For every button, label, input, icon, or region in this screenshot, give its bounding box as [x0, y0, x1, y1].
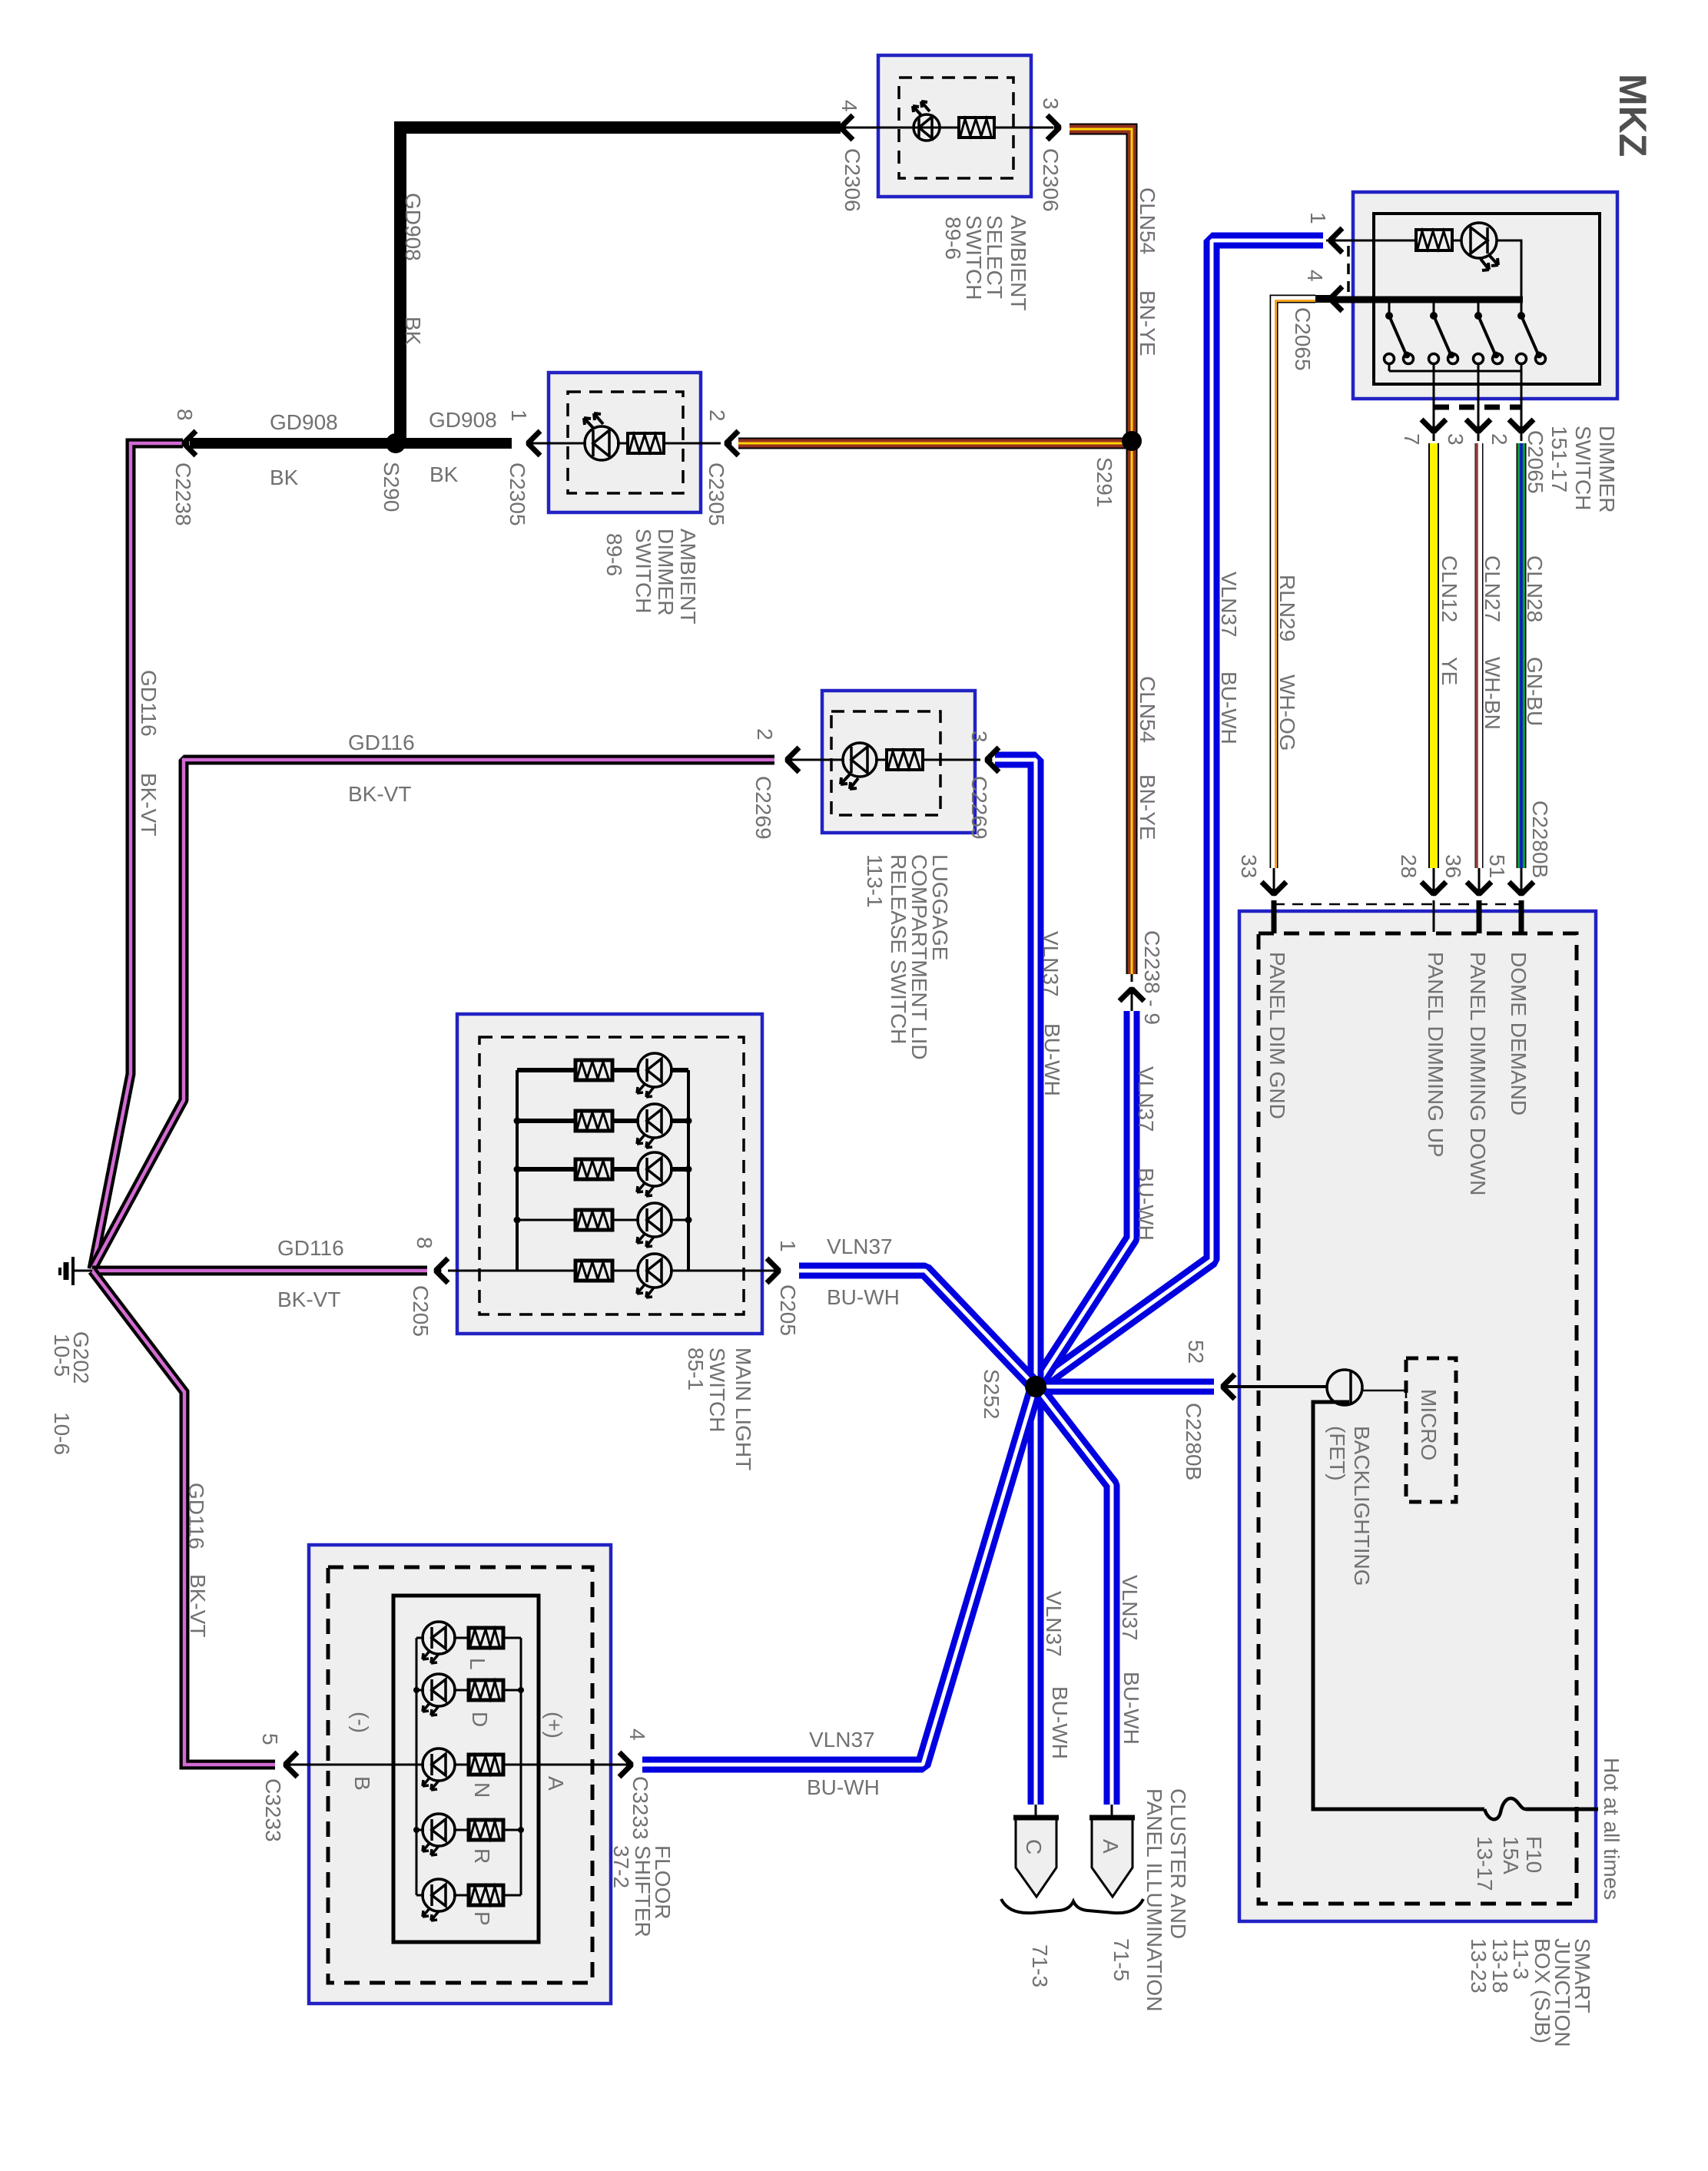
svg-text:DOME DEMAND: DOME DEMAND — [1507, 952, 1531, 1115]
main light row 4: resistor + LED — [517, 1203, 688, 1247]
svg-text:Hot at all times: Hot at all times — [1600, 1758, 1623, 1900]
svg-text:SHIFTER: SHIFTER — [631, 1845, 655, 1937]
main wire through floor shifter — [290, 1764, 424, 1766]
wire through select switch — [844, 127, 959, 129]
svg-text:GD908: GD908 — [270, 410, 338, 434]
svg-text:4: 4 — [625, 1729, 649, 1741]
arrow C2065 pin 7 — [1421, 419, 1446, 433]
svg-text:13-23: 13-23 — [1467, 1938, 1491, 1994]
svg-text:BU-WH: BU-WH — [807, 1775, 880, 1799]
wire GD908 BK horizontal through S290 — [190, 438, 512, 449]
ambient select switch internals — [844, 101, 1053, 141]
wire GD908 BK from ambient select switch pin4 to S290 — [400, 128, 841, 439]
svg-text:C2280B: C2280B — [1182, 1403, 1206, 1480]
svg-text:C2238: C2238 — [171, 462, 195, 526]
svg-text:13-17: 13-17 — [1473, 1836, 1497, 1891]
svg-text:BK: BK — [429, 462, 459, 486]
svg-text:PANEL DIMMING UP: PANEL DIMMING UP — [1424, 952, 1448, 1158]
svg-text:C2269: C2269 — [967, 776, 991, 840]
svg-text:C2065: C2065 — [1291, 307, 1315, 371]
svg-text:C205: C205 — [776, 1284, 800, 1336]
svg-text:89-6: 89-6 — [602, 533, 626, 576]
connector A pentagon — [1092, 1818, 1133, 1897]
main light row 1: resistor + LED — [517, 1053, 688, 1097]
wire stub to connector A — [1111, 1805, 1113, 1818]
svg-text:33: 33 — [1237, 854, 1261, 878]
arrow SJB pin 36 — [1467, 882, 1491, 895]
svg-text:C2306: C2306 — [841, 148, 864, 212]
LED D1 ambient dimmer — [585, 426, 619, 460]
svg-text:L: L — [466, 1658, 489, 1670]
svg-text:2: 2 — [705, 409, 729, 422]
svg-text:BK-VT: BK-VT — [186, 1574, 210, 1637]
svg-text:BACKLIGHTING: BACKLIGHTING — [1350, 1426, 1374, 1586]
svg-text:PANEL ILLUMINATION: PANEL ILLUMINATION — [1143, 1788, 1166, 2011]
svg-text:AMBIENT: AMBIENT — [1007, 215, 1030, 310]
ambient select switch box — [878, 55, 1031, 197]
svg-text:BN-YE: BN-YE — [1136, 290, 1159, 356]
svg-text:CLUSTER AND: CLUSTER AND — [1166, 1788, 1190, 1939]
dashed connector line C2280B top — [1274, 903, 1521, 906]
wire stub to connector C — [1035, 1805, 1037, 1818]
svg-text:C2065: C2065 — [1524, 430, 1547, 494]
svg-text:PANEL DIMMING DOWN: PANEL DIMMING DOWN — [1466, 952, 1490, 1195]
arrow C2305 pin 1 — [527, 431, 540, 456]
svg-text:4: 4 — [1303, 270, 1327, 282]
floor shifter box — [309, 1545, 611, 2004]
svg-text:WH-OG: WH-OG — [1275, 675, 1299, 751]
svg-text:1: 1 — [507, 409, 531, 422]
svg-text:N: N — [470, 1782, 494, 1798]
arrow C2306 pin 4 — [840, 115, 853, 140]
LED D1 select switch — [914, 114, 940, 141]
arrow SJB pin 51 — [1509, 882, 1534, 895]
svg-text:B: B — [350, 1776, 374, 1791]
svg-text:4: 4 — [837, 100, 861, 112]
svg-text:71-5: 71-5 — [1109, 1938, 1133, 1981]
svg-text:BU-WH: BU-WH — [1134, 1168, 1158, 1241]
resistor R1 luggage switch — [887, 750, 923, 770]
resistor R1 dimmer — [1416, 230, 1452, 250]
wire from FET down to fuse F10 — [1313, 1402, 1484, 1809]
switch arm 1 — [1388, 303, 1391, 313]
arrow C2269 pin 3 — [986, 747, 999, 772]
svg-text:SWITCH: SWITCH — [705, 1347, 729, 1432]
svg-text:8: 8 — [413, 1237, 436, 1249]
main light row 2: resistor + LED — [517, 1104, 688, 1148]
svg-text:GD116: GD116 — [277, 1236, 344, 1260]
switch arm 3 — [1478, 303, 1480, 313]
svg-text:VLN37: VLN37 — [1217, 572, 1241, 638]
svg-text:F10: F10 — [1522, 1836, 1546, 1873]
bus bar pin4 — [1334, 297, 1523, 303]
svg-text:DIMMER: DIMMER — [654, 529, 678, 616]
svg-text:VLN37: VLN37 — [1118, 1575, 1142, 1641]
right bus floor shifter — [520, 1638, 522, 1895]
luggage compartment lid release switch internals — [791, 743, 980, 789]
wire resistor to LED — [1452, 240, 1462, 242]
smart junction box (SJB) — [1239, 911, 1596, 1921]
svg-text:37-2: 37-2 — [609, 1845, 633, 1888]
svg-text:1: 1 — [776, 1240, 800, 1252]
wire VLN37 BU-WH from S252 down to connector C — [1028, 1387, 1044, 1805]
svg-text:AMBIENT: AMBIENT — [676, 529, 700, 624]
svg-text:C2305: C2305 — [705, 462, 728, 526]
svg-text:A: A — [544, 1776, 568, 1791]
svg-text:15A: 15A — [1499, 1836, 1523, 1874]
svg-text:(-): (-) — [349, 1712, 373, 1733]
svg-text:113-1: 113-1 — [863, 854, 887, 908]
floor shifter LED L row — [416, 1622, 521, 1663]
switch arm 2 — [1433, 303, 1435, 313]
wire GD116 BK-VT from ground to floor shifter C3233-5 — [92, 1271, 275, 1765]
svg-text:(+): (+) — [542, 1712, 566, 1738]
arrow C2306 pin 3 — [1047, 115, 1060, 140]
svg-text:VLN37: VLN37 — [1039, 931, 1063, 997]
svg-text:GN-BU: GN-BU — [1523, 657, 1547, 726]
svg-text:CLN12: CLN12 — [1438, 555, 1461, 622]
svg-text:RELEASE SWITCH: RELEASE SWITCH — [887, 854, 910, 1044]
arrow SJB pin 33 — [1262, 882, 1286, 895]
right bus main light — [687, 1070, 690, 1271]
svg-text:C3233: C3233 — [261, 1778, 285, 1842]
arrow C205 pin 1 — [767, 1258, 780, 1283]
svg-text:GD116: GD116 — [184, 1483, 208, 1550]
svg-text:BK-VT: BK-VT — [137, 773, 161, 836]
floor shifter LED P row — [416, 1879, 521, 1921]
wire VLN37 BU-WH from main light switch C205-1 to S252 — [799, 1271, 1036, 1387]
main light switch box — [457, 1014, 762, 1334]
svg-text:C2269: C2269 — [751, 776, 775, 840]
svg-text:A: A — [1099, 1839, 1123, 1854]
dashed connector line C2065 left — [1347, 246, 1350, 295]
svg-text:8: 8 — [173, 409, 197, 421]
wire VLN37 BU-WH from C2238-9 to S252 — [1036, 1011, 1132, 1387]
backlighting FET circle — [1327, 1370, 1362, 1405]
svg-text:BK: BK — [270, 466, 299, 489]
svg-text:52: 52 — [1184, 1340, 1208, 1364]
arrow dimmer switch pin 4 — [1329, 287, 1342, 311]
svg-text:YE: YE — [1438, 657, 1461, 685]
svg-text:C3233: C3233 — [628, 1776, 652, 1840]
wire black stub dimmer pin4 — [1315, 295, 1335, 303]
svg-text:GD908: GD908 — [401, 193, 425, 261]
svg-text:CLN54: CLN54 — [1136, 676, 1159, 743]
svg-text:C2305: C2305 — [506, 462, 529, 526]
svg-text:C205: C205 — [409, 1285, 433, 1337]
wire GD116 BK-VT from C2238-8 to ground — [92, 443, 183, 1269]
main light row 5: resistor + LED — [448, 1254, 774, 1298]
svg-text:WH-BN: WH-BN — [1481, 657, 1504, 730]
arrow SJB pin 28 — [1421, 882, 1446, 895]
splice S290 — [386, 433, 406, 453]
arrow C205 pin 8 — [435, 1258, 448, 1283]
main light switch internals — [514, 1070, 692, 1271]
arrow SJB pin 52 — [1222, 1374, 1235, 1399]
left bus main light — [516, 1070, 519, 1271]
svg-text:BU-WH: BU-WH — [1217, 671, 1241, 744]
splice S252 — [1025, 1376, 1046, 1397]
svg-text:13-18: 13-18 — [1488, 1938, 1512, 1994]
svg-text:(FET): (FET) — [1325, 1426, 1349, 1481]
connector C pentagon — [1016, 1818, 1056, 1897]
svg-text:MICRO: MICRO — [1417, 1389, 1441, 1460]
wire VLN37 BU-WH from dimmer switch pin1 to S252 — [1036, 240, 1323, 1387]
wire VLN37 BU-WH from luggage C2269-3 to S252 — [995, 760, 1036, 1387]
svg-text:DIMMER: DIMMER — [1595, 426, 1619, 513]
brace under connectors — [1001, 1899, 1143, 1913]
LED D1 dimmer — [1461, 223, 1497, 258]
svg-text:R: R — [470, 1848, 494, 1864]
svg-text:GD908: GD908 — [429, 408, 497, 432]
ground G202 — [60, 1257, 92, 1285]
svg-text:VLN37: VLN37 — [1134, 1066, 1158, 1132]
wire VLN37 BU-WH from S252 down to connector A — [1036, 1387, 1112, 1805]
arrow C2238 pin 9 — [1119, 988, 1144, 1001]
arrow C2305 pin 2 — [725, 431, 738, 456]
svg-text:CLN27: CLN27 — [1481, 555, 1504, 622]
splice S291 — [1122, 431, 1142, 451]
svg-text:2: 2 — [753, 728, 777, 741]
svg-text:P: P — [470, 1911, 494, 1926]
svg-text:C2306: C2306 — [1039, 148, 1063, 212]
resistor R1 ambient dimmer — [628, 433, 664, 453]
svg-text:2: 2 — [1487, 433, 1511, 446]
wire VLN37 BU-WH from S252 to SJB pin 52 — [1036, 1379, 1214, 1395]
dashed connector line C2065 bottom — [1434, 405, 1522, 410]
svg-text:3: 3 — [1444, 433, 1468, 446]
svg-text:CLN28: CLN28 — [1523, 555, 1547, 622]
svg-text:VLN37: VLN37 — [827, 1235, 893, 1258]
dimmer switch box — [1353, 192, 1617, 399]
svg-text:VLN37: VLN37 — [1042, 1591, 1066, 1657]
arrow C3233 pin 5 — [284, 1752, 297, 1777]
wire RLN29 WH-OG from dimmer pin4 to SJB pin 33 — [1274, 299, 1315, 868]
wire stub C2238-9 — [1131, 974, 1133, 982]
wire pin1 into dimmer — [1326, 240, 1416, 242]
svg-text:1: 1 — [1306, 212, 1330, 224]
svg-text:10-6: 10-6 — [50, 1412, 74, 1455]
svg-text:89-6: 89-6 — [941, 217, 965, 260]
svg-text:BK-VT: BK-VT — [277, 1288, 340, 1311]
svg-text:BU-WH: BU-WH — [1040, 1023, 1064, 1096]
floor shifter LED D row — [416, 1674, 521, 1715]
wire from fuse to SJB edge (hot at all times) — [1526, 1808, 1598, 1811]
fuse F10 — [1484, 1798, 1526, 1819]
svg-text:SWITCH: SWITCH — [1571, 426, 1595, 510]
svg-text:CLN54: CLN54 — [1136, 187, 1159, 254]
ambient dimmer switch box — [549, 373, 701, 512]
ambient dimmer switch internals — [532, 413, 721, 460]
dimmer switch internals — [1326, 223, 1546, 386]
left bus floor shifter — [416, 1638, 418, 1895]
wire CLN12 YE from dimmer pin7 to SJB pin 28 — [1433, 386, 1435, 441]
FET to micro wire — [1361, 1390, 1406, 1392]
svg-text:71-3: 71-3 — [1028, 1944, 1052, 1987]
svg-text:BU-WH: BU-WH — [827, 1285, 900, 1309]
svg-text:3: 3 — [1039, 98, 1063, 110]
svg-text:85-1: 85-1 — [684, 1347, 708, 1390]
main light row 3: resistor + LED — [517, 1152, 688, 1196]
svg-text:C2280B: C2280B — [1528, 800, 1552, 878]
arrow C2238 pin 8 — [183, 431, 196, 456]
wire CLN27 WH-BN from dimmer pin3 to SJB pin 36 — [1478, 386, 1480, 441]
wire through ambient dimmer — [532, 442, 586, 445]
wire VLN37 BU-WH from S252 to floor shifter C3233-4 — [642, 1387, 1036, 1765]
svg-text:VLN37: VLN37 — [809, 1728, 875, 1752]
svg-text:10-5: 10-5 — [50, 1334, 74, 1377]
svg-text:BK-VT: BK-VT — [348, 782, 411, 806]
wire CLN28 GN-BU from dimmer pin2 to SJB pin 51 — [1521, 386, 1523, 441]
wire LED to right then down to bus — [1497, 240, 1521, 297]
arrow C3233 pin 4 — [619, 1752, 632, 1777]
svg-text:S252: S252 — [980, 1369, 1003, 1419]
floor shifter internals — [290, 1638, 626, 1895]
backlighting FET wire from pin 52 — [1228, 1385, 1327, 1388]
svg-text:GD116: GD116 — [137, 670, 161, 737]
wire CLN54 BN-YE from ambient dimmer C2305-2 to S291 — [738, 438, 1132, 449]
svg-text:BOX (SJB): BOX (SJB) — [1531, 1938, 1554, 2043]
switch arm 4 — [1521, 303, 1523, 313]
wire through luggage switch — [791, 759, 844, 761]
svg-text:S291: S291 — [1093, 457, 1116, 507]
svg-text:BU-WH: BU-WH — [1048, 1686, 1072, 1759]
svg-text:RLN29: RLN29 — [1275, 575, 1299, 641]
arrow C2065 pin 3 — [1466, 419, 1491, 433]
svg-text:GD116: GD116 — [348, 731, 415, 754]
luggage compartment lid release switch box — [822, 691, 975, 833]
svg-text:28: 28 — [1397, 854, 1421, 878]
svg-text:MKZ: MKZ — [1611, 74, 1654, 157]
svg-text:36: 36 — [1441, 854, 1465, 878]
svg-text:D: D — [468, 1712, 492, 1727]
svg-text:BN-YE: BN-YE — [1136, 774, 1159, 840]
svg-text:C2238 - 9: C2238 - 9 — [1140, 930, 1164, 1025]
svg-text:151-17: 151-17 — [1547, 426, 1571, 492]
arrow C2269 pin 2 — [786, 747, 799, 772]
bottom link line in dimmer — [1389, 370, 1522, 373]
wire GD116 BK-VT from ground to main light switch C205-8 — [92, 1266, 427, 1276]
svg-text:S290: S290 — [380, 462, 403, 512]
arrow dimmer switch pin 1 — [1329, 228, 1342, 253]
svg-text:BK: BK — [401, 317, 425, 346]
svg-text:C: C — [1022, 1839, 1046, 1854]
LED D1 luggage switch — [843, 743, 877, 777]
micro box — [1406, 1358, 1456, 1502]
wire GD116 BK-VT from luggage switch C2269-2 to ground — [92, 760, 774, 1269]
svg-text:51: 51 — [1485, 854, 1509, 878]
wire CLN54 BN-YE from C2306-3 down to S291 and C2238-9 — [1070, 129, 1132, 974]
resistor R1 select switch — [959, 118, 994, 138]
svg-text:7: 7 — [1400, 433, 1424, 446]
svg-text:MAIN LIGHT: MAIN LIGHT — [731, 1347, 755, 1470]
svg-text:SWITCH: SWITCH — [632, 529, 655, 613]
floor shifter LED R row — [416, 1814, 521, 1855]
svg-text:BU-WH: BU-WH — [1119, 1672, 1143, 1745]
svg-text:3: 3 — [967, 731, 991, 743]
arrow C2065 pin 2 — [1509, 419, 1534, 433]
svg-text:PANEL DIM GND: PANEL DIM GND — [1265, 952, 1289, 1119]
svg-text:5: 5 — [258, 1733, 282, 1745]
floor shifter LED N row — [423, 1748, 503, 1790]
